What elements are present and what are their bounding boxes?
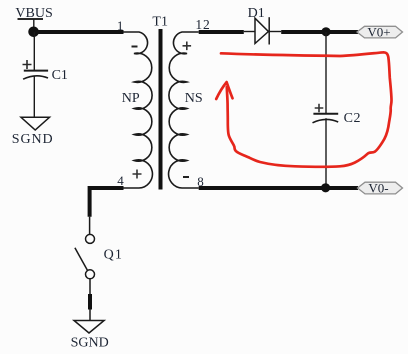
svg-text:SGND: SGND — [12, 132, 54, 147]
wire node down to C1 — [33, 32, 35, 70]
ground SGND (left) — [21, 117, 50, 130]
svg-text:T1: T1 — [152, 14, 168, 29]
svg-text:NP: NP — [122, 91, 140, 106]
switch Q1 bottom contact — [86, 270, 95, 279]
switch Q1 top contact — [86, 234, 95, 243]
svg-text:C1: C1 — [52, 68, 68, 83]
junction node at VBUS — [28, 27, 39, 38]
wire VBUS bar to node — [33, 19, 35, 32]
capacitor C1 — [23, 60, 49, 79]
polarity minus (secondary bottom) — [183, 176, 189, 178]
wire VBUS node to T1 pin 1 (thick bus) — [34, 30, 124, 34]
polarity minus (primary top) — [132, 46, 138, 48]
ground SGND (bottom) — [74, 321, 104, 334]
wire T1 pin 8 to V0- (thick) — [199, 186, 358, 190]
wire to Q1 top contact — [89, 217, 91, 235]
primary winding NP — [124, 32, 153, 188]
red annotation arrowhead — [216, 82, 232, 99]
secondary winding NS — [169, 32, 199, 188]
svg-text:C2: C2 — [344, 111, 362, 126]
svg-text:1: 1 — [117, 18, 124, 33]
svg-text:Q1: Q1 — [104, 247, 124, 262]
wire T1 pin 4 corner to Q1 (thick) — [90, 188, 124, 217]
wire stub (thick) — [88, 294, 92, 310]
capacitor C2 — [313, 104, 339, 123]
wire stub to SGND — [89, 310, 91, 321]
svg-text:12: 12 — [195, 17, 210, 32]
wire C1 to SGND — [33, 76, 35, 117]
svg-text:V0-: V0- — [368, 180, 388, 195]
wire Q1 to stub — [89, 279, 91, 294]
power port VBUS — [15, 6, 52, 21]
svg-text:SGND: SGND — [71, 335, 109, 350]
wire C2 to bottom node — [325, 118, 327, 187]
port V0+ — [357, 25, 403, 40]
wire node to C2 — [325, 32, 327, 113]
wire D1 to V0+ (thick) — [281, 30, 358, 34]
switch Q1 lever — [75, 248, 88, 270]
port V0- — [358, 180, 403, 195]
junction node bottom right — [321, 183, 330, 192]
polarity plus (primary bottom) — [133, 170, 142, 179]
wire T1 pin 12 to D1 (thick) — [199, 30, 244, 34]
diode D1 — [244, 17, 281, 44]
svg-text:NS: NS — [185, 91, 203, 106]
svg-text:4: 4 — [117, 173, 124, 188]
svg-text:V0+: V0+ — [367, 25, 390, 40]
polarity plus (secondary top) — [183, 42, 192, 51]
red annotation current loop — [221, 52, 392, 167]
transformer core — [159, 29, 163, 190]
junction node top right — [321, 27, 330, 36]
